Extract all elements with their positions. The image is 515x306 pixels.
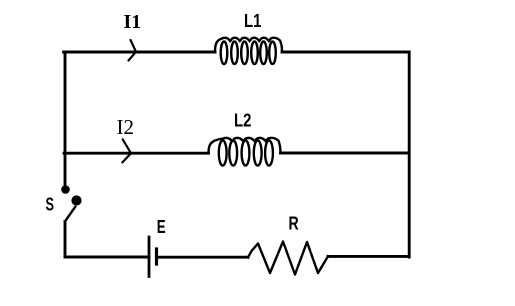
switch S contact dot upper	[61, 185, 70, 194]
inductor L1	[215, 38, 282, 64]
svg-text:E: E	[157, 217, 166, 237]
wire top left segment	[64, 51, 215, 54]
svg-text:S: S	[46, 195, 55, 215]
wire middle left segment	[64, 152, 209, 155]
wire middle right segment	[281, 152, 410, 155]
wire bottom left segment	[65, 256, 149, 259]
svg-text:I2: I2	[117, 115, 135, 139]
inductor L2	[209, 138, 281, 166]
wire bottom right segment	[328, 255, 409, 258]
battery E long plate	[148, 237, 151, 277]
switch S contact dot lower	[71, 195, 81, 205]
wire left vertical lower	[64, 222, 67, 258]
wire right vertical	[408, 52, 411, 257]
switch S lever	[65, 207, 75, 222]
arrow I1	[129, 40, 137, 61]
wire left vertical upper	[64, 52, 67, 186]
battery E short plate	[155, 249, 158, 264]
svg-text:R: R	[289, 214, 299, 234]
svg-text:L1: L1	[244, 11, 261, 31]
svg-text:L2: L2	[234, 111, 251, 131]
resistor R	[248, 242, 328, 275]
arrow I2	[122, 139, 131, 162]
svg-text:I1: I1	[124, 11, 142, 33]
wire bottom middle segment	[157, 256, 249, 259]
wire top right segment	[282, 51, 409, 54]
